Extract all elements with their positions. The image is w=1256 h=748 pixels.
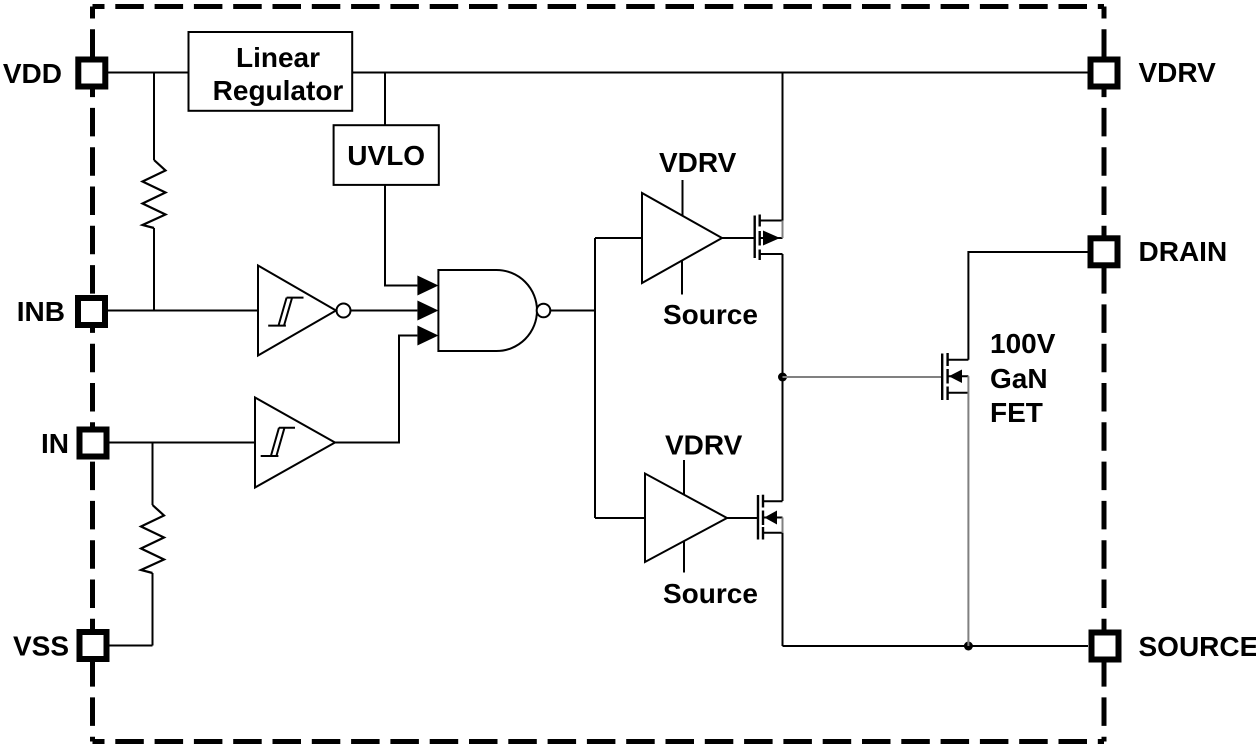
svg-text:VDRV: VDRV bbox=[665, 430, 743, 461]
svg-text:Regulator: Regulator bbox=[213, 75, 344, 106]
Q1 drain stub bbox=[760, 220, 783, 222]
wire SOURCE line to SOURCE pin bbox=[783, 645, 1089, 647]
wire U2 output up to NAND input 3 bbox=[335, 336, 417, 443]
U4 VDRV supply stub bbox=[682, 180, 684, 216]
wire rail to top driver input bbox=[595, 237, 642, 239]
pin VDD bbox=[78, 60, 105, 87]
wire Q3 drain up to DRAIN pin bbox=[968, 252, 1088, 360]
wire Linear Regulator to VDRV pin bbox=[352, 72, 1088, 74]
Q3 body stub bbox=[948, 375, 969, 377]
svg-text:100V: 100V bbox=[990, 328, 1056, 359]
wire Q1 source down to Q2 drain (gate drive node) bbox=[782, 254, 784, 501]
Q3 body arrow bbox=[949, 370, 962, 384]
svg-text:IN: IN bbox=[41, 428, 69, 459]
svg-text:DRAIN: DRAIN bbox=[1139, 236, 1228, 267]
wire NAND output to driver rail bbox=[550, 310, 595, 312]
svg-text:UVLO: UVLO bbox=[347, 140, 425, 171]
wire U5 output to Q2 gate bbox=[727, 517, 758, 519]
Q1 body arrow bbox=[763, 231, 780, 246]
svg-text:FET: FET bbox=[990, 397, 1043, 428]
Schmitt buffer U2 (IN) bbox=[255, 398, 335, 488]
pin VSS bbox=[80, 632, 107, 659]
wire rail to bottom driver input bbox=[595, 517, 645, 519]
wire VDD node down to resistor R1 bbox=[153, 73, 155, 161]
junction SOURCE node bbox=[964, 642, 973, 651]
NAND output bubble bbox=[537, 304, 551, 318]
Q2 body arrow bbox=[764, 511, 777, 525]
Q3 source stub bbox=[948, 392, 969, 394]
wire IN pin to Schmitt buffer U2 bbox=[108, 442, 255, 444]
Q3 body tie bbox=[967, 376, 969, 393]
U4 Source supply stub bbox=[681, 261, 683, 295]
Schmitt inverter U1 (INB) bbox=[258, 266, 351, 356]
driver input rail bbox=[594, 238, 596, 518]
wire gate drive node to GaN FET gate bbox=[783, 376, 943, 378]
wire U1 output to NAND input 2 bbox=[351, 310, 418, 312]
wire VDD pin to Linear Regulator bbox=[108, 72, 189, 74]
NAND input arrow 3 bbox=[417, 326, 438, 346]
Q1 source stub bbox=[760, 253, 783, 255]
wire U4 output to Q1 gate bbox=[722, 237, 755, 239]
svg-text:GaN: GaN bbox=[990, 363, 1048, 394]
top driver buffer U4 bbox=[642, 193, 722, 283]
svg-text:Source: Source bbox=[663, 299, 758, 330]
Q2 source stub bbox=[763, 532, 783, 534]
Q1 body tie bbox=[782, 221, 784, 239]
transistor Q2 (N-channel pull-down) bbox=[758, 495, 763, 540]
transistor Q3 100V GaN FET bbox=[942, 353, 947, 400]
wire IN node down to resistor R2 bbox=[152, 443, 154, 506]
Q2 drain stub bbox=[763, 500, 783, 502]
wire resistor R2 to VSS wire bbox=[152, 573, 154, 646]
bottom driver buffer U5 bbox=[645, 474, 727, 563]
svg-text:Linear: Linear bbox=[236, 42, 320, 73]
pin SOURCE bbox=[1092, 633, 1119, 660]
wire VDRV rail down to Q1 drain bbox=[782, 73, 784, 221]
resistor R1 (VDD to INB) bbox=[143, 160, 166, 228]
svg-text:VDRV: VDRV bbox=[659, 147, 737, 178]
IC boundary dashed border bbox=[93, 7, 1105, 742]
U5 VDRV supply stub bbox=[683, 460, 685, 495]
NAND gate U3 bbox=[438, 270, 537, 351]
Q2 body tie bbox=[782, 518, 784, 533]
Q3 drain stub bbox=[948, 359, 969, 361]
pin INB bbox=[78, 298, 105, 325]
NAND input arrow 2 bbox=[417, 301, 438, 321]
pin IN bbox=[80, 430, 107, 457]
wire INB pin to Schmitt buffer U1 bbox=[108, 310, 258, 312]
svg-text:INB: INB bbox=[17, 296, 65, 327]
UVLO block bbox=[334, 125, 439, 185]
svg-text:VDRV: VDRV bbox=[1139, 57, 1217, 88]
resistor R2 (IN to VSS) bbox=[141, 505, 164, 573]
pin VDRV bbox=[1091, 60, 1118, 87]
wire resistor R1 to INB node bbox=[153, 228, 155, 311]
svg-text:SOURCE: SOURCE bbox=[1139, 631, 1256, 662]
wire Q3 source down to SOURCE node bbox=[967, 393, 969, 646]
Q2 body stub bbox=[763, 517, 783, 519]
wire Q2 source down to SOURCE line bbox=[782, 533, 784, 646]
wire UVLO to NAND input 1 bbox=[385, 185, 417, 286]
transistor Q1 (P-channel pull-up) bbox=[755, 215, 760, 261]
wire VDRV rail down to UVLO bbox=[384, 73, 386, 126]
Linear Regulator block bbox=[189, 32, 353, 111]
Q1 body stub bbox=[760, 237, 783, 239]
pin DRAIN bbox=[1091, 238, 1118, 265]
NAND input arrow 1 bbox=[417, 276, 438, 296]
svg-text:VSS: VSS bbox=[13, 631, 69, 662]
wire VSS pin bbox=[108, 645, 153, 647]
svg-text:Source: Source bbox=[663, 578, 758, 609]
svg-text:VDD: VDD bbox=[3, 58, 62, 89]
junction gate drive node bbox=[778, 373, 787, 382]
U5 Source supply stub bbox=[683, 541, 685, 572]
